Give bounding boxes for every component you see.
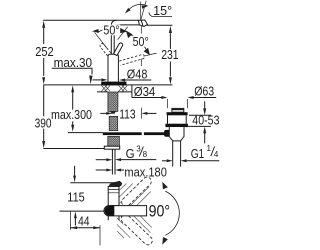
- svg-text:G1: G1: [191, 147, 205, 161]
- faucet body: [108, 54, 118, 83]
- faucet pipe left edge: [110, 26, 112, 55]
- G 3/8 left pointer line: [96, 159, 107, 161]
- dashed lever plan up position: [122, 177, 152, 206]
- svg-text:390: 390: [35, 116, 52, 130]
- connection hoses: [112, 149, 115, 174]
- dimension 113 left arrow: [100, 112, 106, 114]
- 90 arc top arrowhead: [162, 182, 168, 190]
- dimension max300 bottom arrowhead: [71, 125, 74, 132]
- dimension 44 line: [70, 227, 100, 229]
- svg-text:8: 8: [143, 150, 148, 159]
- deck / mounting surface line: [43, 84, 172, 86]
- dia63 dimension line left arrow: [158, 97, 161, 99]
- spout aerator tip (15 deg): [138, 20, 147, 26]
- G 1 1/4 fraction slash: [211, 146, 215, 156]
- plan body front reference line: [60, 210, 105, 212]
- swing hatch lower: [117, 216, 152, 238]
- right lever ray extension: [144, 53, 157, 56]
- label max.30 underline and leader arrow: [52, 68, 92, 74]
- svg-text:max.300: max.300: [51, 108, 92, 122]
- svg-text:231: 231: [161, 48, 178, 62]
- hose fitting flange: [104, 146, 119, 149]
- dia48 dimension right arrow + underline: [125, 79, 151, 81]
- 44 extension line right / lever tip: [99, 225, 101, 245]
- right arc bottom arrowhead: [144, 48, 150, 55]
- swing hatch upper: [111, 183, 151, 205]
- hose connection block: [108, 136, 120, 146]
- 15 deg arc left arrowhead: [125, 8, 131, 13]
- lever right 50 arc: [128, 34, 147, 52]
- 40-53 bottom arrow: [204, 133, 206, 143]
- G 1 1/4 right arrow + underline: [187, 160, 220, 162]
- escutcheon base plate: [101, 82, 126, 86]
- svg-text:max.180: max.180: [124, 166, 167, 180]
- threaded shank lower: [109, 116, 118, 130]
- svg-text:90°: 90°: [149, 202, 171, 220]
- drain tailpipe: [173, 141, 181, 167]
- lever left 50 arc: [97, 28, 119, 33]
- dimension 252 top arrowhead: [42, 21, 45, 28]
- svg-text:Ø48: Ø48: [127, 68, 148, 82]
- dia63 extension lines: [167, 99, 187, 108]
- drain top cap: [172, 108, 184, 112]
- threaded shank upper: [108, 92, 118, 111]
- left arc left arrowhead: [92, 29, 99, 33]
- 390 bottom reference line: [43, 148, 111, 150]
- dimension 231 top arrowhead: [169, 26, 172, 33]
- drain flange ring: [165, 124, 188, 127]
- plan view: extension line spout tip: [70, 182, 115, 184]
- dashed lever position left: [100, 44, 111, 56]
- dia34 label flag: [132, 85, 158, 98]
- aerator inner line: [141, 20, 143, 25]
- dimension max300 top arrowhead: [71, 85, 74, 92]
- max.180 left pointer line: [96, 169, 107, 171]
- solid lever handle: [114, 43, 123, 56]
- left arc right arrowhead: [120, 28, 128, 33]
- svg-text:max.30: max.30: [54, 56, 93, 70]
- 15 deg arc right arrowhead: [142, 5, 148, 8]
- 44 left arrowhead: [71, 226, 78, 229]
- extension line spout outlet to 231 dim: [147, 24, 173, 26]
- outlet axis dash-dot: [140, 26, 142, 66]
- plan lever pivot ball: [105, 206, 115, 216]
- max.180 right pointer: [115, 169, 121, 172]
- shank tip wedge: [110, 111, 115, 113]
- dia48 dimension left arrow: [93, 79, 102, 81]
- 40-53 upper reference line: [189, 114, 211, 116]
- pop-up rod ball joint: [164, 130, 172, 137]
- svg-text:50°: 50°: [133, 35, 149, 49]
- 15 deg vertical reference line: [140, 2, 142, 21]
- svg-text:G: G: [126, 147, 135, 161]
- elbow inner curve: [114, 25, 117, 27]
- dimension 231 vertical line: [169, 33, 171, 76]
- 40-53 top arrow: [204, 101, 206, 108]
- 90 arc bottom arrowhead: [162, 237, 168, 245]
- G 3/8 fraction slash: [139, 147, 143, 157]
- svg-text:Ø63: Ø63: [194, 85, 214, 99]
- svg-text:3: 3: [136, 144, 141, 153]
- svg-text:113: 113: [119, 107, 135, 121]
- plan lever bar: [104, 206, 147, 216]
- 90 deg arc: [165, 191, 179, 235]
- outlet extension line for 113: [140, 108, 142, 119]
- dimension 113 right arrow: [147, 112, 156, 114]
- dimension 115 top arrow: [74, 166, 76, 176]
- right arc top arrowhead: [126, 30, 133, 38]
- svg-text:4: 4: [214, 150, 219, 159]
- drain body: [169, 127, 184, 141]
- 40-53 lower reference line: [186, 125, 211, 127]
- 44 right arrowhead: [93, 226, 100, 229]
- faucet pipe right edge: [113, 27, 115, 54]
- dimension 231 bottom arrowhead: [169, 77, 172, 84]
- left lever angle ray: [95, 32, 108, 48]
- spout tube top edge handled by ext line; elbow outer curve: [111, 20, 116, 25]
- max300 bottom reference line: [68, 132, 103, 134]
- deck cross-section hatch right: [118, 85, 127, 91]
- plan view spout column: [108, 186, 119, 205]
- svg-text:115: 115: [67, 190, 85, 204]
- dashed lever position right: [119, 54, 144, 65]
- dimension 390 bottom arrowhead: [42, 141, 45, 148]
- drain mid section: [168, 115, 187, 123]
- right lever angle ray: [118, 27, 128, 40]
- svg-text:15°: 15°: [153, 4, 172, 18]
- plan view spout tip wedge: [109, 181, 122, 186]
- svg-text:50°: 50°: [103, 24, 119, 38]
- drain upper ring: [167, 112, 188, 115]
- pop-up rod horizontal: [103, 132, 142, 135]
- G 1 1/4 pointer left line: [162, 160, 167, 162]
- spout underside: [117, 24, 139, 26]
- text backgrounds: [34, 46, 55, 57]
- 44 extension line left: [69, 212, 71, 230]
- dimension max300 line: [72, 92, 74, 125]
- svg-text:44: 44: [78, 214, 90, 228]
- spout column inner lines: [108, 190, 119, 193]
- dashed lever plan down position: [121, 215, 152, 245]
- svg-text:40-53: 40-53: [192, 113, 219, 127]
- dia63 dimension right arrow + underline: [194, 97, 217, 99]
- G 3/8 right pointer + underline: [121, 159, 156, 161]
- svg-text:252: 252: [35, 45, 54, 59]
- dimension 252 bottom arrowhead: [42, 77, 45, 84]
- extension line spout top to 252 dim: [43, 19, 139, 21]
- dimension 115 bottom arrow: [74, 218, 76, 225]
- 15 deg arc: [129, 4, 147, 9]
- svg-text:Ø34: Ø34: [134, 85, 156, 99]
- deck underside line: [97, 91, 132, 93]
- dimension 252 vertical line: [43, 28, 45, 77]
- 15 deg label underline and leader: [149, 12, 172, 16]
- svg-text:1: 1: [207, 144, 212, 153]
- dimension 390 line: [43, 85, 45, 141]
- 15 deg slanted axis: [141, 1, 147, 21]
- deck cross-section hatch left: [101, 85, 110, 91]
